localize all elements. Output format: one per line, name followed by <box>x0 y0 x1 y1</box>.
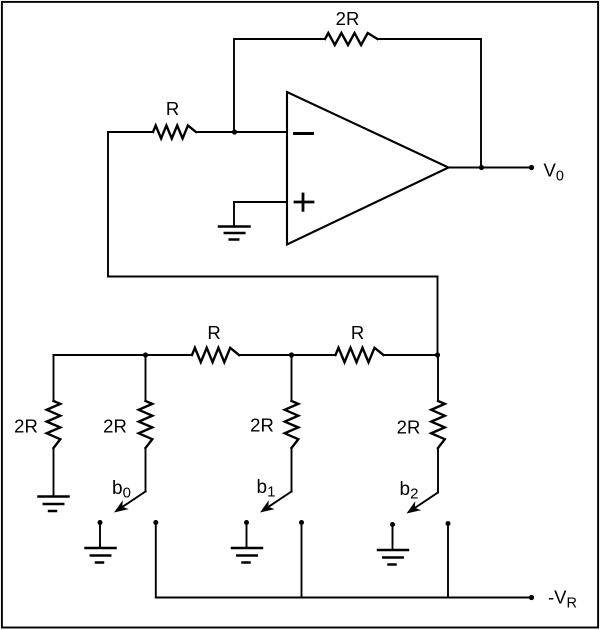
wire -VR rail <box>156 597 532 599</box>
wire feedback left vertical <box>233 39 235 132</box>
wire non-inverting input <box>234 201 287 203</box>
wire feedback right vertical <box>480 39 482 168</box>
wire branch b2 bottom <box>437 448 439 493</box>
wire feedback top-left segment <box>234 38 325 40</box>
wire ladder-feed bottom horizontal <box>108 276 438 278</box>
svg-text:R: R <box>351 322 364 343</box>
ground (op-amp non-inverting input) <box>219 227 250 240</box>
wire branch b2 top <box>437 355 439 401</box>
node -VR terminal dot <box>529 595 534 600</box>
wire non-inverting input to ground <box>233 202 235 226</box>
switch b1 ground contact dot <box>244 520 249 525</box>
resistor 2R (branch b2) <box>431 401 445 448</box>
wire branch b1 top <box>291 355 293 401</box>
op-amp U1 inverting input marker (minus) <box>295 132 313 135</box>
switch b0 arrowhead <box>114 500 129 512</box>
switch b2 arrowhead <box>407 501 422 513</box>
switch b0 ground contact dot <box>98 520 103 525</box>
wire switch b2 ground stem <box>392 525 394 550</box>
wire input left segment <box>108 131 153 133</box>
wire switch b0 ground stem <box>99 523 101 548</box>
switch b1 rail contact dot <box>299 520 304 525</box>
junction dot ladder node B <box>289 352 294 357</box>
ground (switch b2) <box>378 550 408 565</box>
wire branch b1 bottom <box>291 448 293 492</box>
resistor 2R (branch b0) <box>139 401 153 448</box>
wire ladder bus left segment <box>54 354 193 356</box>
switch b1 arm <box>268 492 291 507</box>
svg-text:2R: 2R <box>250 415 274 436</box>
junction dot output/feedback <box>479 165 484 170</box>
wire op-amp output <box>449 167 532 169</box>
switch b2 arm <box>415 493 438 508</box>
switch b1 arrowhead <box>260 500 275 512</box>
wire switch b1 ground stem <box>246 523 248 548</box>
wire 2R terminator top <box>53 355 55 401</box>
wire ladder-feed left vertical <box>107 132 109 277</box>
junction dot ladder node A <box>143 352 148 357</box>
svg-text:R: R <box>207 322 220 343</box>
svg-text:2R: 2R <box>103 416 127 437</box>
resistor 2R (branch b1) <box>285 401 299 448</box>
wire branch b0 bottom <box>145 448 147 492</box>
svg-text:2R: 2R <box>397 417 421 438</box>
junction dot ladder node C <box>435 352 440 357</box>
wire feedback top-right segment <box>378 38 482 40</box>
resistor R (input) <box>153 126 196 139</box>
junction dot inverting input node <box>232 129 237 134</box>
ground (switch b0) <box>86 548 116 563</box>
switch b2 rail contact dot <box>446 521 451 526</box>
wire switch b1 contact to rail <box>301 523 303 598</box>
wire ladder-feed right vertical down to ladder <box>437 277 439 356</box>
wire branch b0 top <box>145 355 147 401</box>
wire 2R terminator bottom <box>53 448 55 496</box>
svg-text:2R: 2R <box>336 8 360 29</box>
resistor 2R (terminator) <box>47 401 61 448</box>
op-amp U1 non-inverting input marker (plus) <box>295 194 313 210</box>
wire input to op-amp inverting pin <box>196 131 287 133</box>
resistor R1 (ladder series) <box>192 348 239 362</box>
ground (terminator) <box>39 497 69 512</box>
ground (switch b1) <box>232 548 262 563</box>
resistor 2R (feedback) <box>325 33 378 45</box>
wire switch b2 contact to rail <box>447 524 449 598</box>
wire ladder bus middle segment <box>239 354 336 356</box>
op-amp U1 <box>287 92 449 245</box>
switch b2 ground contact dot <box>390 522 395 527</box>
svg-text:2R: 2R <box>14 416 38 437</box>
wire switch b0 contact to rail <box>155 523 157 598</box>
node V0 terminal dot <box>529 165 534 170</box>
resistor R2 (ladder series) <box>336 348 384 362</box>
wire ladder bus right segment <box>384 354 438 356</box>
switch b0 rail contact dot <box>153 520 158 525</box>
switch b0 arm <box>122 492 145 507</box>
svg-text:R: R <box>166 98 179 119</box>
